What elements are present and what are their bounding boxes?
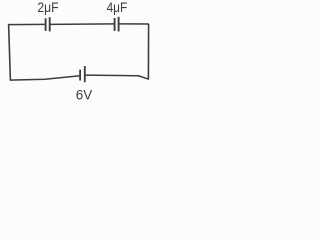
wire top rail right segment <box>119 23 149 25</box>
capacitor C1 2uF right plate <box>49 17 51 31</box>
wire top rail left segment <box>8 23 44 25</box>
capacitor C1 2uF left plate <box>45 18 47 31</box>
wire bottom rail left segment <box>10 76 80 80</box>
capacitor C2 4uF left plate <box>114 18 116 31</box>
wire top rail middle segment <box>50 23 114 26</box>
capacitor C2 4uF right plate <box>118 17 120 32</box>
wire right rail <box>147 24 149 80</box>
svg-text:6V: 6V <box>76 87 93 103</box>
battery B1 positive long plate <box>84 66 86 82</box>
svg-text:4μF: 4μF <box>107 0 128 15</box>
svg-text:2μF: 2μF <box>37 0 58 15</box>
wire left rail <box>9 24 11 81</box>
wire bottom rail right segment <box>85 75 149 79</box>
battery B1 negative short plate <box>79 70 81 81</box>
